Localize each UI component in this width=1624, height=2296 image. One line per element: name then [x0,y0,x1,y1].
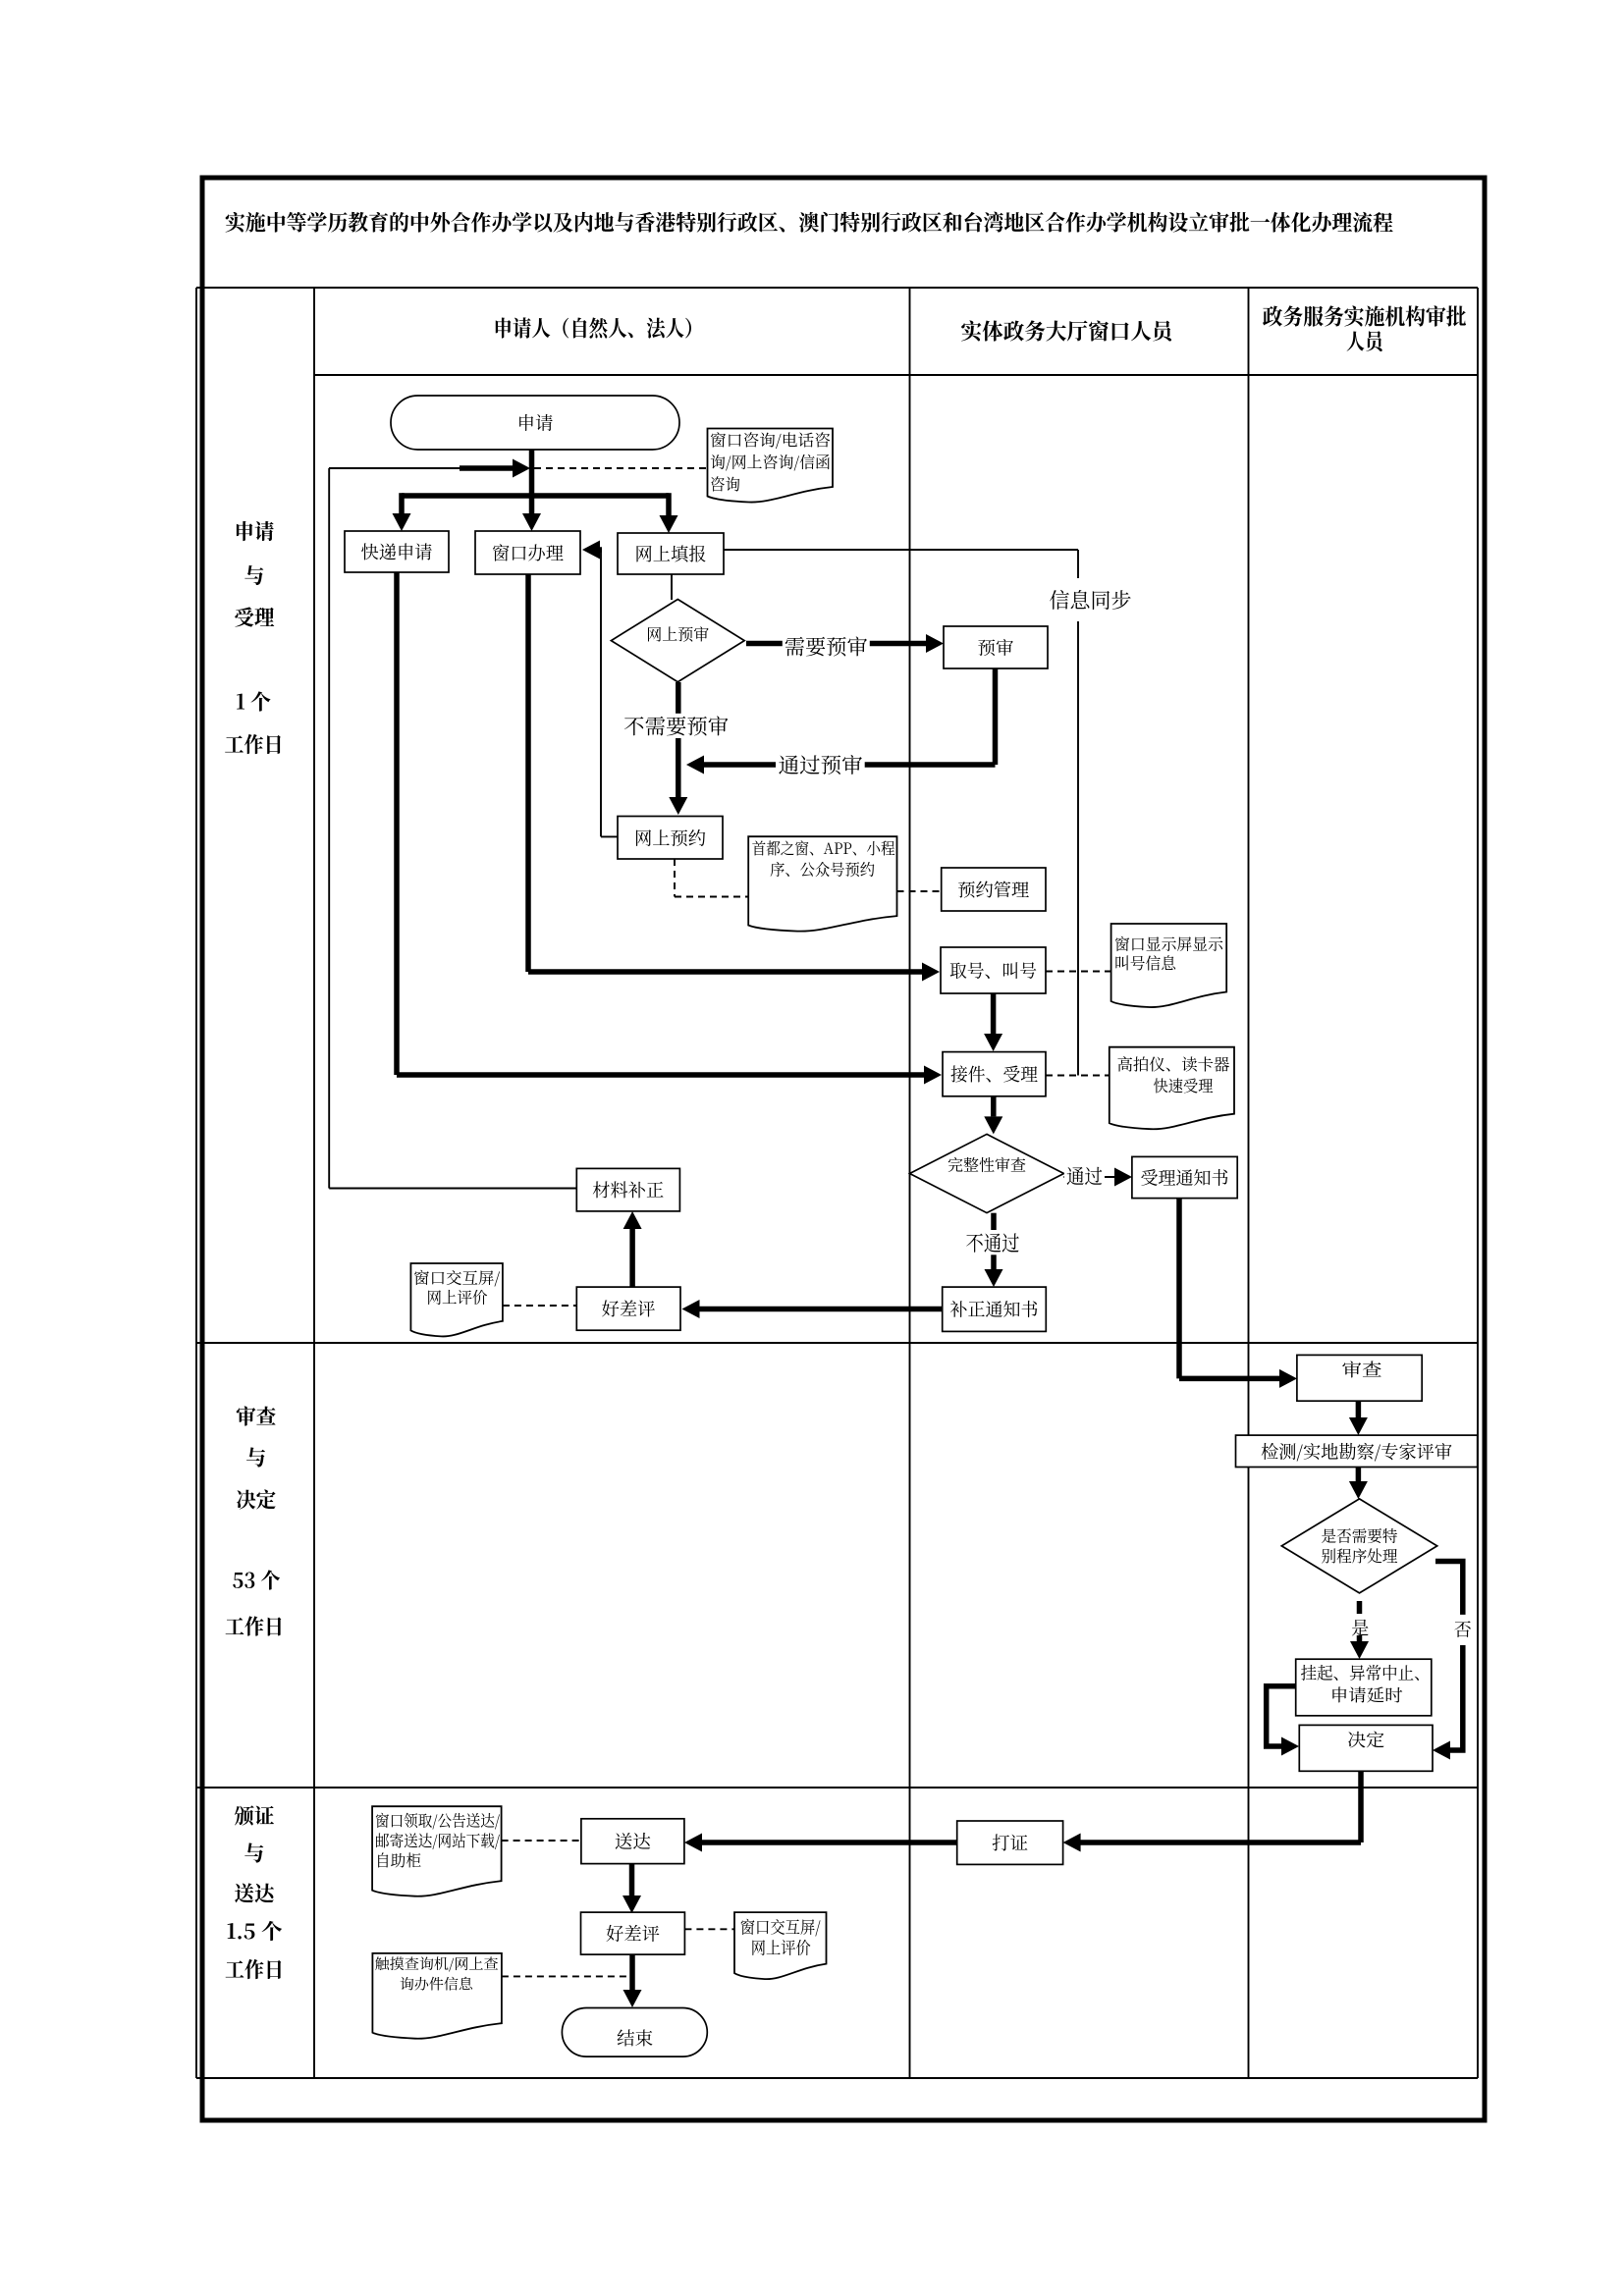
svg-text:结束: 结束 [617,2025,653,2051]
node 申请 (start) [391,396,679,450]
wire dashed 接件受理 to note [1046,1075,1110,1077]
svg-text:取号、叫号: 取号、叫号 [949,958,1037,984]
svg-text:接件、受理: 接件、受理 [950,1061,1038,1087]
wire 是 down seg1 [1357,1601,1363,1614]
svg-text:咨询: 咨询 [710,472,740,495]
wire 网上预审 down seg1 [676,682,681,714]
node 快递申请 [345,531,449,572]
wire 通过预审 right seg [864,762,996,768]
note 高拍仪、读卡器快速受理 [1110,1047,1234,1130]
node 决定 [1299,1725,1433,1771]
label 不通过 [964,1230,1022,1255]
wire 网上填报 to diamond [671,574,673,600]
svg-text:与: 与 [245,1443,266,1472]
wire 好差评 to 材料补正 [629,1229,635,1287]
wire 打证 to 送达 [702,1840,957,1845]
svg-text:检测/实地勘察/专家评审: 检测/实地勘察/专家评审 [1261,1438,1452,1464]
node 好差评 (stage1) [576,1287,680,1330]
wire branch left down [399,493,405,514]
arrowhead into 窗口办理 right [582,541,600,560]
divider stage|lane1 [313,288,315,2078]
decision 是否需要特别程序处理 [1281,1499,1436,1593]
svg-text:送达: 送达 [615,1829,651,1854]
svg-text:申请延时: 申请延时 [1330,1682,1403,1706]
wire 决定 to 打证 [1358,1771,1364,1842]
arrowhead into 挂起 [1350,1641,1369,1659]
node 检测/实地勘察/专家评审 [1236,1435,1478,1467]
node 受理通知书 [1132,1156,1237,1198]
wire stub [593,547,602,553]
wire branch horizontal [402,493,669,499]
svg-text:挂起、异常中止、: 挂起、异常中止、 [1301,1659,1431,1683]
svg-text:实体政务大厅窗口人员: 实体政务大厅窗口人员 [961,315,1176,346]
wire 预审 down [993,668,999,765]
wire 好差评 to 结束 [629,1954,635,1990]
svg-text:53 个: 53 个 [233,1566,281,1595]
svg-text:材料补正: 材料补正 [592,1177,664,1202]
wire dashed 好差评 to note [684,1928,734,1930]
svg-text:审查: 审查 [236,1402,276,1431]
svg-text:通过: 通过 [1066,1161,1103,1190]
svg-text:触摸查询机/网上查: 触摸查询机/网上查 [375,1953,499,1974]
label 否 [1452,1619,1474,1640]
svg-text:网上评价: 网上评价 [427,1286,488,1308]
svg-text:快速受理: 快速受理 [1154,1074,1214,1096]
svg-text:1 个: 1 个 [236,687,271,717]
wire 材料补正 feedback left [329,1188,576,1190]
svg-text:送达: 送达 [235,1879,277,1908]
svg-text:需要预审: 需要预审 [785,631,868,661]
svg-text:工作日: 工作日 [225,1954,284,1984]
node 窗口办理 [475,531,580,574]
arrowhead into 取号叫号 left [922,963,940,982]
svg-text:窗口办理: 窗口办理 [492,540,564,565]
wire 申请 stem down [529,450,535,515]
svg-text:不需要预审: 不需要预审 [623,711,729,740]
wire 不通过 down seg1 [991,1213,997,1230]
svg-text:申请: 申请 [235,516,275,546]
wire 信息同步 vertical seg2 [1077,621,1079,1076]
wire branch right down [666,493,672,515]
note 首都之窗、APP、小程序、公众号预约 [748,836,896,931]
wire 接件受理 to 完整性审查 [991,1096,997,1117]
node 预约管理 [942,868,1046,911]
svg-text:窗口咨询/电话咨: 窗口咨询/电话咨 [710,428,831,451]
wire 否 loop upper [1435,1562,1463,1615]
svg-text:与: 与 [244,561,265,590]
wire 取号叫号 to 接件受理 [991,993,997,1034]
svg-text:序、公众号预约: 序、公众号预约 [770,858,875,881]
wire dashed to note 咨询 [534,467,707,469]
svg-text:打证: 打证 [992,1830,1028,1855]
arrowhead into 接件受理 left [924,1066,942,1085]
wire 窗口办理 down [525,574,531,972]
wire 信息同步 horizontal [724,549,1078,551]
label 通过预审 [777,753,865,777]
wire 检测 to 是否需要特别程序处理 [1356,1468,1362,1482]
svg-text:工作日: 工作日 [225,1612,284,1641]
node 送达 [581,1819,684,1864]
svg-text:信息同步: 信息同步 [1050,585,1132,614]
svg-text:询办件信息: 询办件信息 [400,1974,474,1995]
wire 网上预审 down seg2 [676,738,681,797]
wire 送达 to 好差评 [629,1864,635,1896]
wire 不通过 down seg2 [991,1255,997,1269]
wire 通过预审 left seg [704,762,776,768]
wire 补正通知书 to 好差评 [700,1307,943,1312]
label 需要预审 [783,634,870,659]
node 补正通知书 [943,1287,1047,1331]
svg-text:受理通知书: 受理通知书 [1141,1165,1229,1191]
outer thick border [202,178,1485,2120]
svg-text:叫号信息: 叫号信息 [1114,951,1177,974]
wire dashed note to 好差评 line [502,1975,628,1977]
node 网上填报 [618,533,724,574]
header bottom [314,374,1478,376]
wire 网上预约 loop up [600,550,602,836]
svg-text:受理: 受理 [235,603,275,632]
divider lane1|lane2 [909,288,911,2078]
node 挂起、异常中止、申请延时 [1296,1659,1432,1716]
stage line 1 [196,1342,1478,1344]
wire 快递申请 down [394,572,400,1075]
wire dashed 网上预约 to note [674,859,676,897]
wire 需要预审 arrow [746,641,926,647]
svg-text:完整性审查: 完整性审查 [947,1153,1026,1176]
svg-text:询/网上咨询/信函: 询/网上咨询/信函 [710,451,831,473]
note 窗口交互屏/网上评价 (stage1) [410,1263,503,1336]
svg-text:决定: 决定 [236,1485,276,1515]
svg-text:申请人（自然人、法人）: 申请人（自然人、法人） [494,313,704,344]
decision 完整性审查 [910,1134,1064,1212]
svg-text:人员: 人员 [1346,326,1386,356]
node 网上预约 [618,817,723,860]
node 取号、叫号 [941,947,1046,993]
wire dashed 取号叫号 to note [1046,971,1110,973]
node 结束 (end) [562,2008,707,2057]
note 触摸查询机/网上查询办件信息 [372,1953,502,2039]
divider lane2|lane3 [1248,288,1250,2078]
svg-text:申请: 申请 [517,410,554,436]
svg-text:网上预约: 网上预约 [634,825,706,850]
svg-text:实施中等学历教育的中外合作办学以及内地与香港特别行政区、澳门: 实施中等学历教育的中外合作办学以及内地与香港特别行政区、澳门特别行政区和台湾地区… [225,207,1393,238]
svg-text:决定: 决定 [1347,1727,1384,1752]
svg-text:不通过: 不通过 [966,1228,1020,1257]
wire dashed note to 好差评 [503,1305,576,1307]
wire 信息同步 vertical seg1 [1077,550,1079,578]
note 窗口领取/公告送达/邮寄送达/网站下载/自助柜 [372,1806,502,1896]
wire 挂起 loop to 决定 [1267,1686,1296,1746]
wire 否 loop lower [1450,1645,1463,1750]
svg-text:预约管理: 预约管理 [957,877,1029,902]
node 材料补正 [576,1168,679,1211]
svg-text:别程序处理: 别程序处理 [1322,1544,1398,1567]
svg-text:与: 与 [244,1839,265,1868]
svg-text:工作日: 工作日 [225,729,284,759]
node 打证 [957,1821,1063,1864]
wire 审查 to 检测 [1356,1401,1362,1417]
decision 网上预审 [611,600,744,682]
wire 通过 arrow [1063,1176,1114,1178]
wire 受理通知书 to 审查 [1176,1199,1182,1379]
label 不需要预审 [622,714,731,738]
wire dashed note to 预约管理 [897,890,942,892]
label 是 [1349,1617,1371,1638]
note 窗口咨询/电话咨询/网上咨询/信函咨询 [708,429,834,503]
svg-text:颁证: 颁证 [235,1801,275,1831]
svg-text:网上填报: 网上填报 [635,541,707,566]
svg-text:首都之窗、APP、小程: 首都之窗、APP、小程 [752,836,895,859]
table right [1477,288,1479,2078]
svg-text:好差评: 好差评 [606,1921,660,1947]
wire feedback into junction (thick part) [460,465,515,471]
svg-text:窗口领取/公告送达/: 窗口领取/公告送达/ [375,1808,500,1831]
stage line 2 [196,1787,1478,1789]
node 好差评 (stage3) [581,1912,685,1954]
svg-text:快递申请: 快递申请 [361,539,433,564]
wire dashed note to 送达 [502,1840,581,1842]
svg-text:网上预审: 网上预审 [646,622,709,645]
node 审查 [1297,1355,1422,1401]
svg-text:补正通知书: 补正通知书 [950,1297,1039,1322]
svg-text:自助柜: 自助柜 [375,1848,421,1871]
svg-text:否: 否 [1454,1617,1472,1642]
svg-text:1.5 个: 1.5 个 [227,1916,283,1946]
svg-text:高拍仪、读卡器: 高拍仪、读卡器 [1117,1052,1230,1075]
svg-text:通过预审: 通过预审 [779,750,863,779]
label 通过 [1064,1163,1105,1187]
node 接件、受理 [943,1052,1046,1096]
svg-text:好差评: 好差评 [602,1296,656,1321]
table top [196,287,1478,289]
note 窗口交互屏/网上评价 (stage3) [734,1912,827,1979]
table left [195,288,197,2078]
table bottom [196,2077,1478,2079]
svg-text:审查: 审查 [1342,1357,1382,1382]
wire feedback into junction (thin part) [329,467,460,469]
svg-text:网上评价: 网上评价 [751,1935,811,1959]
wire feedback up [328,468,330,1189]
note 窗口显示屏显示叫号信息 [1111,924,1227,1007]
svg-text:预审: 预审 [978,635,1014,661]
node 预审 [944,626,1048,668]
